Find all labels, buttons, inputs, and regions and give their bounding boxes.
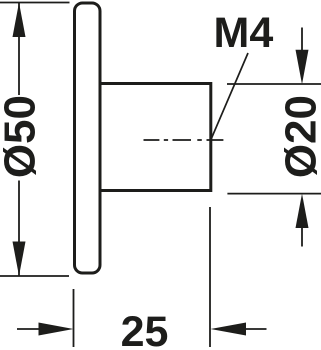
arrow right (25) (39, 323, 74, 336)
extension line top (Ø50) (0, 2, 70, 4)
arrow down (Ø20) (296, 50, 309, 85)
extension line left (25) (73, 289, 75, 347)
dimension line Ø50 upper segment (18, 3, 20, 95)
extension line top (Ø20) (227, 83, 321, 85)
svg-text:Ø20: Ø20 (277, 95, 321, 178)
extension line bottom (Ø20) (227, 193, 321, 195)
cylinder body outline (100, 84, 211, 191)
arrow up (Ø50) (13, 3, 26, 38)
arrow up (Ø20) (296, 194, 309, 228)
dimension line Ø50 lower segment (18, 181, 20, 277)
dimension line left (25) (17, 328, 40, 330)
dimension line right (25) (245, 328, 267, 330)
svg-text:25: 25 (121, 308, 169, 350)
dimension line stub below (Ø20) (301, 228, 303, 247)
arrow down (Ø50) (13, 242, 26, 277)
extension line bottom (Ø50) (0, 275, 69, 277)
svg-text:Ø50: Ø50 (0, 95, 45, 178)
dimension line stub above (Ø20) (301, 28, 303, 51)
flange (front plate, side view) (75, 3, 101, 273)
arrow left (25) (211, 323, 247, 336)
leader line M4 (210, 53, 248, 141)
centerline (144, 139, 224, 141)
extension line right (25) (209, 207, 211, 347)
svg-text:M4: M4 (214, 9, 274, 57)
